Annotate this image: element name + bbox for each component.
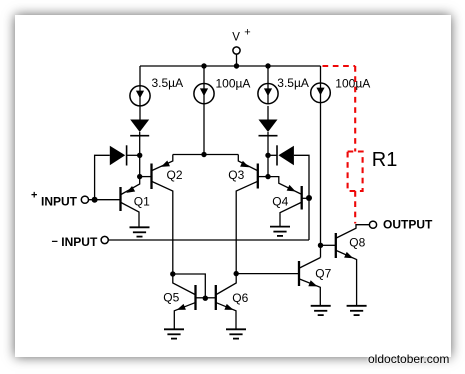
- svg-text:V: V: [232, 32, 240, 44]
- svg-text:+: +: [244, 27, 250, 39]
- svg-text:Q5: Q5: [163, 291, 179, 305]
- svg-text:Q8: Q8: [349, 236, 365, 250]
- svg-text:Q1: Q1: [134, 194, 150, 208]
- svg-text:−: −: [52, 236, 58, 248]
- svg-text:OUTPUT: OUTPUT: [383, 218, 433, 232]
- svg-text:3.5µA: 3.5µA: [277, 76, 309, 90]
- svg-text:100µA: 100µA: [216, 77, 251, 91]
- svg-text:Q2: Q2: [167, 168, 183, 182]
- svg-text:Q4: Q4: [272, 194, 288, 208]
- svg-text:R1: R1: [372, 149, 398, 171]
- svg-text:100µA: 100µA: [335, 77, 370, 91]
- svg-text:INPUT: INPUT: [41, 194, 78, 208]
- svg-text:+: +: [31, 190, 37, 202]
- svg-text:INPUT: INPUT: [61, 235, 98, 249]
- svg-text:Q3: Q3: [228, 168, 244, 182]
- svg-text:Q6: Q6: [232, 291, 248, 305]
- svg-text:3.5µA: 3.5µA: [152, 76, 184, 90]
- svg-text:Q7: Q7: [315, 267, 331, 281]
